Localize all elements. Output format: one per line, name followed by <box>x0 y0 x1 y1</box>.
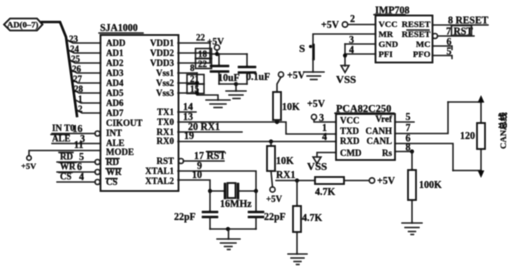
wire AD4 branch <box>73 80 101 83</box>
junction <box>343 53 347 57</box>
svg-text:ADD: ADD <box>106 38 126 48</box>
wire Vss3 <box>178 92 197 94</box>
svg-text:Vss1: Vss1 <box>156 68 175 78</box>
svg-text:PFO: PFO <box>413 49 431 59</box>
junction <box>215 52 219 56</box>
svg-text:MC: MC <box>416 39 431 49</box>
svg-text:2: 2 <box>350 14 355 25</box>
wire CANH <box>395 102 448 134</box>
svg-text:+5V: +5V <box>307 99 326 110</box>
pin bubble RST <box>179 159 184 164</box>
svg-text:VDD1: VDD1 <box>150 38 174 48</box>
wire RX0 to RXD <box>178 141 336 143</box>
wire INT <box>52 133 95 135</box>
wire AD1 branch <box>69 50 101 53</box>
svg-text:10K: 10K <box>276 156 294 167</box>
svg-text:4.7K: 4.7K <box>315 187 336 198</box>
capacitor C4 22pF right <box>249 191 286 229</box>
net RX1 divider <box>276 170 315 183</box>
svg-text:Vref: Vref <box>375 114 393 124</box>
capacitor C3 22pF left <box>174 191 217 229</box>
junction <box>269 139 273 143</box>
capacitor C2 0.1uF <box>239 54 270 84</box>
IC U2 IMP708 <box>374 5 433 62</box>
wire MC <box>433 46 453 50</box>
svg-text:11: 11 <box>74 140 83 151</box>
svg-text:28: 28 <box>74 84 84 94</box>
switch S <box>299 43 314 72</box>
wire VCC <box>314 120 336 122</box>
wire Vss2 <box>178 82 197 84</box>
svg-text:TX0: TX0 <box>157 117 175 127</box>
wire MODE <box>29 151 101 156</box>
node AD(0-7) bus tag <box>4 19 43 31</box>
resistor R3 4.7K horizontal <box>315 176 396 198</box>
wire AD6 branch <box>76 100 101 103</box>
svg-text:CIKOUT: CIKOUT <box>106 118 143 128</box>
IC U3 PCA82C250 <box>335 104 395 160</box>
svg-text:RESET: RESET <box>402 19 431 29</box>
wire VDD bus <box>209 43 211 63</box>
wire RX1 node <box>276 180 315 182</box>
wire AD0 branch <box>67 40 101 43</box>
wire RD <box>57 161 95 163</box>
svg-text:RX0: RX0 <box>157 136 175 146</box>
pin bubble RESETB <box>433 34 438 39</box>
wire VDD3 <box>178 62 210 64</box>
svg-text:24: 24 <box>70 44 80 54</box>
svg-text:+5V: +5V <box>21 161 37 171</box>
svg-text:10K: 10K <box>282 102 300 113</box>
svg-text:4.7K: 4.7K <box>302 213 323 224</box>
wire Vref stub <box>395 121 414 123</box>
svg-text:CMD: CMD <box>340 148 362 158</box>
svg-text:26: 26 <box>72 64 82 74</box>
wire CAN bus top rail <box>448 101 481 103</box>
svg-text:CAN总线: CAN总线 <box>497 112 508 149</box>
svg-text:23: 23 <box>69 34 79 44</box>
wire VDD1 <box>178 42 210 44</box>
svg-text:5: 5 <box>447 47 452 58</box>
svg-text:PFI: PFI <box>379 49 394 59</box>
svg-text:+5V: +5V <box>377 176 396 187</box>
wire ALE <box>52 143 101 145</box>
wire CS <box>57 181 95 183</box>
wire RESETB out <box>438 35 474 37</box>
svg-text:7: 7 <box>406 123 411 134</box>
wire XTAL1 <box>178 171 256 191</box>
wire Vss1 <box>178 72 197 74</box>
junction <box>195 91 199 95</box>
wire cap2 bottom <box>236 83 247 85</box>
pin number 21 <box>187 74 204 84</box>
svg-text:RX1: RX1 <box>276 170 295 181</box>
wire RESET out <box>433 24 489 26</box>
svg-text:AD3: AD3 <box>106 68 124 78</box>
svg-text:VCC: VCC <box>379 19 398 29</box>
wire PFI <box>345 53 376 55</box>
svg-text:10: 10 <box>192 170 202 181</box>
svg-text:100K: 100K <box>419 180 442 191</box>
wire TX1 stub <box>178 111 196 113</box>
junction <box>254 189 258 193</box>
wire crystal ground rail <box>210 228 256 230</box>
wire bus from tag <box>42 22 77 116</box>
ground crystal <box>217 229 240 250</box>
bus arrow up <box>478 95 485 103</box>
wire AD2 branch <box>70 60 101 63</box>
wire Rs <box>395 151 412 153</box>
crystal Y1 16MHz <box>210 183 256 210</box>
resistor R5 120 termination <box>460 102 485 171</box>
svg-text:22pF: 22pF <box>264 212 286 223</box>
svg-text:Rs: Rs <box>382 148 392 158</box>
svg-text:5: 5 <box>406 112 411 123</box>
pin number 15 <box>187 84 204 94</box>
wire VDD2 <box>178 52 210 54</box>
svg-text:CANH: CANH <box>366 126 393 136</box>
svg-text:16MHz: 16MHz <box>220 199 252 210</box>
svg-text:XTAL1: XTAL1 <box>145 166 174 176</box>
svg-text:19: 19 <box>184 131 194 142</box>
svg-text:2: 2 <box>78 104 83 114</box>
svg-text:0.1uF: 0.1uF <box>246 72 270 83</box>
svg-text:RST: RST <box>156 156 174 166</box>
wire Vss bus <box>197 73 218 100</box>
terminal +5V <box>27 156 32 161</box>
svg-text:VSS: VSS <box>307 161 327 173</box>
svg-text:8: 8 <box>406 143 411 154</box>
svg-text:27: 27 <box>73 74 83 84</box>
junction <box>234 82 238 86</box>
pin number 18 <box>196 49 212 60</box>
svg-text:AD2: AD2 <box>106 58 124 68</box>
ground R4 <box>288 254 307 265</box>
ground Vss <box>206 100 230 108</box>
terminal +5V PCA <box>307 99 336 124</box>
svg-text:4: 4 <box>322 132 327 143</box>
pin bubble INT <box>95 131 100 136</box>
junction <box>226 227 230 231</box>
svg-text:MODE: MODE <box>106 147 134 157</box>
svg-text:25: 25 <box>71 54 81 64</box>
svg-text:AD7: AD7 <box>106 108 124 118</box>
IC U1 SJA1000 <box>95 23 184 191</box>
ground caps <box>226 91 246 99</box>
wire CANL <box>395 144 453 171</box>
wire AD3 branch <box>72 70 101 73</box>
svg-text:GND: GND <box>379 39 399 49</box>
ground switch <box>304 72 324 80</box>
svg-text:+5V: +5V <box>287 71 306 82</box>
wire MR <box>313 34 376 45</box>
svg-text:1: 1 <box>78 94 83 104</box>
pin bubble CS <box>95 180 100 185</box>
wire XTAL2 <box>178 180 210 191</box>
svg-text:AD(0–7): AD(0–7) <box>7 20 38 30</box>
wire GND/PFI join <box>344 44 346 66</box>
svg-text:120: 120 <box>460 131 475 142</box>
svg-text:RXD: RXD <box>340 136 360 146</box>
svg-text:8: 8 <box>190 63 195 73</box>
resistor R1 10K pull-up TX0 <box>273 71 306 123</box>
svg-text:Vss3: Vss3 <box>156 88 175 98</box>
wire GND <box>345 43 376 45</box>
pin bubble RD <box>95 160 100 165</box>
capacitor C1 10uF <box>211 54 240 84</box>
svg-text:AD1: AD1 <box>106 48 124 58</box>
wire CAN bus bottom rail <box>453 170 481 172</box>
svg-text:CANL: CANL <box>366 136 392 146</box>
power flag VSS PCA <box>307 157 327 173</box>
svg-text:AD4: AD4 <box>106 78 124 88</box>
wire caps to ground <box>219 84 236 91</box>
svg-text:22: 22 <box>198 59 208 69</box>
power flag VSS IMP708 <box>336 66 356 87</box>
svg-text:18: 18 <box>198 49 208 59</box>
net INT0 <box>52 123 95 135</box>
svg-text:VSS: VSS <box>336 74 356 86</box>
net RST stub <box>184 151 227 162</box>
svg-text:INT: INT <box>106 128 122 138</box>
svg-text:AD6: AD6 <box>106 98 124 108</box>
resistor R6 100K <box>408 149 442 223</box>
ground R6 <box>402 223 422 235</box>
wire PFO <box>433 56 453 59</box>
junction <box>275 120 279 124</box>
svg-text:+5V: +5V <box>266 194 283 204</box>
wire WR <box>57 171 95 173</box>
svg-text:Vss2: Vss2 <box>156 78 175 88</box>
net RD <box>57 152 95 164</box>
wire TX0 to TXD <box>178 122 336 134</box>
svg-text:TXD: TXD <box>340 126 360 136</box>
net RX1 stub <box>178 122 242 133</box>
junction <box>195 81 199 85</box>
pin number 12 <box>196 59 212 70</box>
svg-text:VDD3: VDD3 <box>150 58 174 68</box>
svg-text:S: S <box>299 43 305 55</box>
svg-text:AD5: AD5 <box>106 88 124 98</box>
net RST label <box>446 26 473 38</box>
wire VCC <box>348 24 376 26</box>
svg-text:+5V: +5V <box>321 20 340 31</box>
terminal +5V IMP708 <box>321 14 376 31</box>
svg-text:MR: MR <box>379 29 394 39</box>
wire AD7 branch <box>77 110 101 113</box>
resistor R2 10K pull-up RX0 <box>266 142 294 205</box>
wire +5V rail <box>210 53 247 55</box>
svg-text:22pF: 22pF <box>174 212 196 223</box>
wire AD5 branch <box>74 90 101 93</box>
svg-text:VCC: VCC <box>340 116 360 126</box>
net ALE <box>51 134 101 146</box>
net MODE pull-up <box>21 140 101 171</box>
pin bubble WR <box>95 170 100 175</box>
net WR <box>57 162 95 174</box>
wire CMD to VSS <box>317 153 336 158</box>
bus arrow down <box>478 170 485 178</box>
svg-text:22: 22 <box>196 33 206 43</box>
svg-text:VDD2: VDD2 <box>150 48 174 58</box>
svg-text:XTAL2: XTAL2 <box>145 176 174 186</box>
junction <box>208 189 212 193</box>
resistor R4 4.7K vertical <box>293 181 323 255</box>
svg-text:TX1: TX1 <box>157 107 175 117</box>
terminal +5V VDD <box>207 38 224 55</box>
net CS <box>57 172 95 184</box>
junction <box>295 178 299 182</box>
